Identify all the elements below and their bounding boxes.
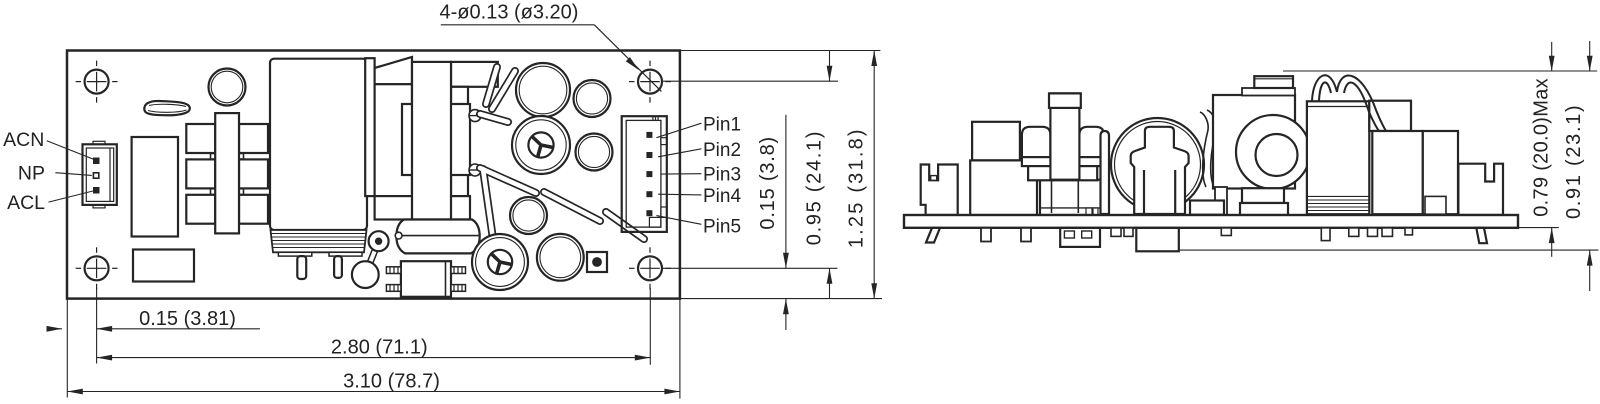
svg-text:4-ø0.13 (ø3.20): 4-ø0.13 (ø3.20) — [440, 2, 579, 24]
svg-text:ACN: ACN — [3, 129, 44, 151]
svg-text:Pin3: Pin3 — [703, 165, 741, 186]
svg-text:0.15 (3.8): 0.15 (3.8) — [757, 136, 779, 230]
svg-text:ACL: ACL — [7, 192, 45, 214]
svg-text:1.25 (31.8): 1.25 (31.8) — [846, 127, 868, 248]
svg-text:0.91 (23.1): 0.91 (23.1) — [1563, 104, 1585, 219]
svg-text:0.95 (24.1): 0.95 (24.1) — [803, 130, 825, 245]
svg-text:Pin4: Pin4 — [703, 186, 741, 207]
svg-text:Pin2: Pin2 — [703, 140, 741, 161]
svg-text:0.79 (20.0)Max: 0.79 (20.0)Max — [1530, 78, 1552, 217]
svg-text:NP: NP — [18, 163, 45, 185]
svg-text:0.15 (3.81): 0.15 (3.81) — [139, 308, 236, 330]
svg-text:2.80 (71.1): 2.80 (71.1) — [331, 337, 428, 359]
svg-text:3.10 (78.7): 3.10 (78.7) — [343, 371, 440, 393]
svg-text:Pin1: Pin1 — [703, 114, 741, 135]
svg-text:Pin5: Pin5 — [703, 216, 741, 237]
